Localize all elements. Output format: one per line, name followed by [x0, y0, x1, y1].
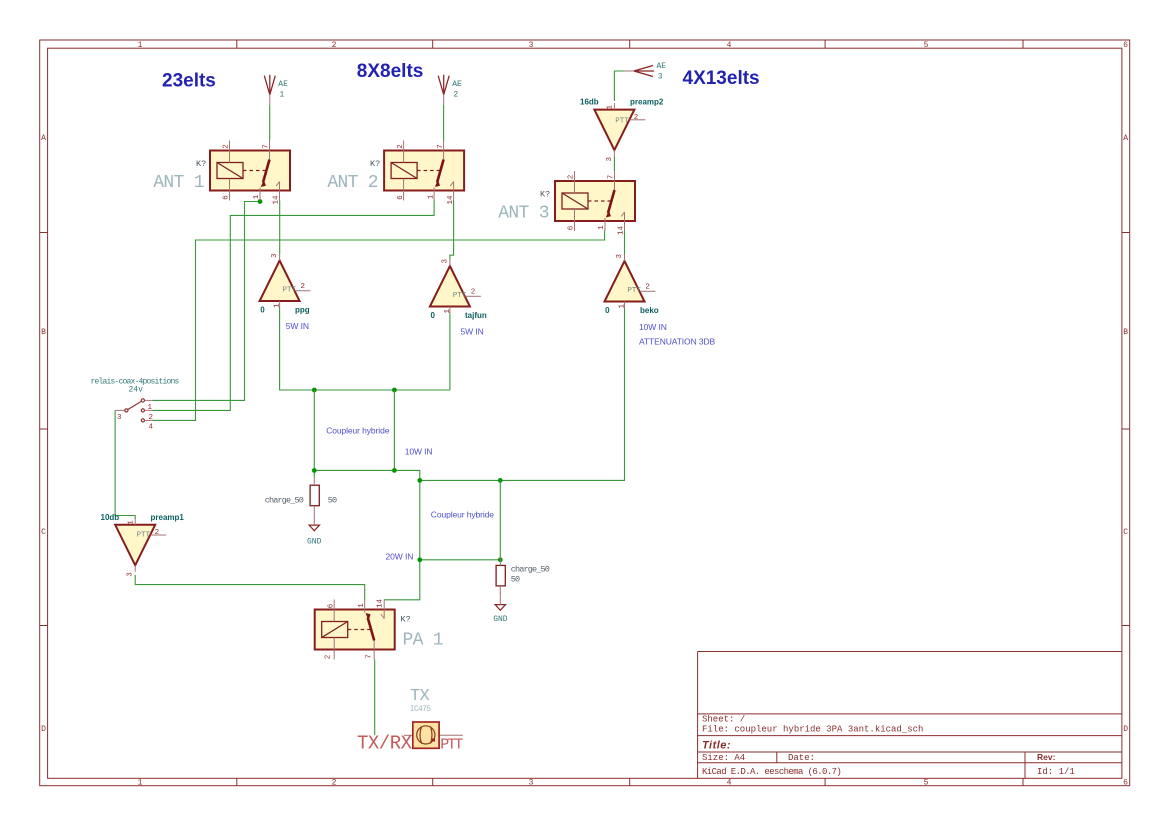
wire beko pin1 down to coupler2: [420, 306, 625, 480]
wire ANT2 pin14 to tajfun pin3: [450, 201, 454, 261]
wire preamp2 pin3 to ANT3 pin7: [613, 157, 615, 171]
svg-text:8X8elts: 8X8elts: [357, 61, 424, 82]
svg-text:GND: GND: [307, 538, 322, 547]
ground GND1: [307, 513, 322, 547]
svg-text:GND: GND: [493, 615, 508, 624]
amplifier ppg PTT: [260, 253, 311, 331]
svg-text:4: 4: [149, 423, 154, 431]
resistor charge_50 R1 50: [265, 477, 337, 513]
svg-text:4X13elts: 4X13elts: [683, 68, 760, 89]
svg-text:7: 7: [608, 175, 616, 180]
svg-text:6: 6: [327, 603, 335, 608]
svg-text:K?: K?: [370, 159, 380, 169]
svg-text:B: B: [41, 328, 46, 337]
component TX/RX PTT lamp U1: [357, 687, 463, 754]
svg-text:1: 1: [427, 194, 435, 199]
svg-text:3: 3: [441, 259, 449, 264]
svg-text:A: A: [41, 134, 46, 143]
svg-text:0: 0: [260, 305, 265, 314]
svg-text:Coupleur hybride: Coupleur hybride: [431, 510, 495, 520]
node junction coupler2 bottom left: [417, 557, 422, 562]
svg-text:File: coupleur hybride 3PA 3an: File: coupleur hybride 3PA 3ant.kicad_sc…: [702, 724, 923, 734]
svg-text:5W IN: 5W IN: [461, 326, 484, 336]
svg-text:3: 3: [271, 253, 279, 258]
svg-text:2: 2: [324, 655, 332, 660]
svg-text:14: 14: [273, 195, 281, 205]
svg-text:7: 7: [437, 144, 445, 149]
svg-text:3: 3: [658, 73, 663, 82]
svg-text:1: 1: [280, 91, 285, 100]
node junction coupler1 bottom right: [392, 468, 397, 473]
svg-text:2: 2: [332, 779, 337, 788]
antenna AE3: [624, 62, 666, 82]
svg-text:Id: 1/1: Id: 1/1: [1037, 767, 1075, 777]
svg-text:1: 1: [127, 520, 135, 525]
node junction coupler2 bottom right: [498, 557, 503, 562]
wire ANT2 pin1 to switch contact2: [152, 201, 434, 411]
svg-text:1: 1: [274, 303, 282, 308]
svg-text:PTT: PTT: [283, 286, 297, 294]
svg-text:ANT 1: ANT 1: [153, 173, 204, 193]
node junction ANT1 pin1: [258, 199, 263, 204]
svg-text:1: 1: [253, 194, 261, 199]
svg-text:preamp1: preamp1: [151, 513, 185, 522]
svg-text:C: C: [1123, 528, 1128, 537]
svg-text:5: 5: [924, 41, 929, 50]
svg-text:24v: 24v: [129, 385, 144, 394]
node junction coupler1 top right: [392, 388, 397, 393]
svg-text:B: B: [1123, 328, 1128, 337]
wire ANT1 pin1 to switch contact1: [152, 202, 260, 401]
relay PA1 K?: [315, 598, 443, 659]
antenna AE2: [438, 75, 462, 105]
wire coupler1 left branch down: [313, 390, 315, 478]
svg-text:3: 3: [127, 572, 135, 577]
ground GND2: [493, 592, 508, 624]
wire ppg pin1 down to coupler1: [280, 307, 450, 390]
svg-text:6: 6: [1123, 41, 1128, 50]
svg-text:AE: AE: [657, 62, 667, 71]
svg-text:Sheet: /: Sheet: /: [702, 715, 745, 725]
svg-text:23elts: 23elts: [162, 71, 216, 92]
svg-text:3: 3: [529, 41, 534, 50]
svg-text:3: 3: [117, 414, 122, 422]
svg-text:2: 2: [568, 175, 576, 180]
wire AE2 to ANT2 pin7: [443, 105, 445, 141]
wire coupler1 bottom to coupler2: [314, 470, 420, 599]
svg-text:3: 3: [529, 779, 534, 788]
svg-text:1: 1: [598, 225, 606, 230]
svg-text:1: 1: [138, 41, 143, 50]
resistor charge_50 R2 50: [496, 557, 550, 593]
wire AE3 to preamp2 pin1: [614, 71, 628, 101]
svg-text:2: 2: [223, 144, 231, 149]
svg-text:charge_50: charge_50: [511, 564, 550, 574]
svg-text:2: 2: [149, 414, 154, 422]
svg-text:K?: K?: [401, 615, 411, 625]
relay ANT1 K?: [153, 141, 290, 205]
wire preamp1 pin3 to PA1 pin1: [135, 575, 365, 600]
svg-text:4: 4: [727, 41, 732, 50]
relay ANT2 K?: [327, 141, 464, 205]
node junction coupler2 top right: [498, 478, 503, 483]
svg-text:Date:: Date:: [788, 753, 815, 763]
svg-text:PTT: PTT: [440, 736, 463, 753]
svg-text:50: 50: [511, 574, 520, 584]
amplifier beko PTT: [605, 254, 716, 347]
wire coupler2 bottom bar: [420, 559, 501, 561]
svg-text:Size: A4: Size: A4: [702, 753, 745, 763]
svg-text:TX: TX: [410, 687, 430, 706]
svg-text:K?: K?: [196, 159, 206, 169]
svg-text:preamp2: preamp2: [630, 98, 664, 107]
svg-text:0: 0: [605, 306, 610, 315]
svg-text:10W IN: 10W IN: [639, 322, 667, 332]
antenna AE1: [264, 75, 288, 105]
svg-text:D: D: [1123, 725, 1128, 734]
svg-text:5W IN: 5W IN: [286, 321, 309, 331]
amplifier tajfun PTT: [430, 259, 487, 337]
svg-text:6: 6: [397, 195, 405, 200]
switch relais-coax-4positions SW1: [91, 377, 180, 431]
wire ANT3 pin14 to beko pin3: [624, 231, 626, 255]
svg-text:Title:: Title:: [702, 739, 731, 751]
svg-text:3: 3: [616, 254, 624, 259]
svg-text:ATTENUATION 3DB: ATTENUATION 3DB: [639, 337, 716, 347]
svg-text:3: 3: [606, 157, 614, 162]
svg-text:6: 6: [568, 225, 576, 230]
svg-text:2: 2: [155, 529, 160, 537]
node junction coupler1 bottom left: [312, 468, 317, 473]
wire ANT3 pin1 to switch contact4: [152, 231, 604, 421]
svg-text:14: 14: [447, 195, 455, 205]
svg-text:1: 1: [444, 309, 452, 314]
svg-text:ppg: ppg: [295, 305, 310, 314]
svg-text:IC475: IC475: [410, 705, 431, 714]
svg-text:2: 2: [453, 91, 458, 100]
wire tajfun pin1 down to coupler1: [449, 312, 451, 391]
svg-text:1: 1: [607, 105, 615, 110]
svg-text:PTT: PTT: [627, 287, 641, 295]
wire switch common to preamp1 pin1: [115, 410, 135, 519]
wire ANT1 pin14 to ppg pin3: [279, 201, 281, 255]
svg-text:6: 6: [1123, 779, 1128, 788]
svg-text:PTT: PTT: [137, 532, 151, 540]
svg-text:20W IN: 20W IN: [386, 552, 414, 562]
svg-text:14: 14: [618, 225, 626, 235]
svg-text:5: 5: [924, 779, 929, 788]
svg-text:10db: 10db: [101, 513, 120, 522]
svg-text:2: 2: [471, 288, 476, 296]
svg-text:tajfun: tajfun: [465, 311, 487, 320]
svg-text:Rev:: Rev:: [1037, 752, 1056, 762]
svg-text:1: 1: [358, 603, 366, 608]
svg-text:7: 7: [263, 144, 271, 149]
svg-text:1: 1: [618, 304, 626, 309]
svg-text:10W IN: 10W IN: [405, 446, 433, 456]
svg-text:AE: AE: [452, 80, 462, 89]
node junction coupler1 top left: [312, 388, 317, 393]
svg-text:ANT 3: ANT 3: [498, 204, 549, 224]
svg-text:1: 1: [148, 404, 153, 412]
svg-text:2: 2: [332, 41, 337, 50]
svg-text:D: D: [41, 725, 46, 734]
svg-text:2: 2: [634, 114, 639, 122]
svg-text:PTT: PTT: [615, 118, 629, 126]
svg-text:7: 7: [365, 654, 373, 659]
wire coupler1 right branch down: [393, 390, 395, 470]
svg-text:2: 2: [397, 144, 405, 149]
svg-text:beko: beko: [640, 306, 659, 315]
svg-text:2: 2: [645, 283, 650, 291]
node junction coupler2 top left: [417, 478, 422, 483]
svg-text:50: 50: [328, 495, 337, 505]
amplifier preamp2 PTT 16db: [580, 98, 664, 162]
svg-text:16db: 16db: [580, 98, 599, 107]
svg-text:ANT 2: ANT 2: [327, 173, 378, 193]
wire AE1 to ANT1 pin7: [269, 105, 271, 141]
svg-text:4: 4: [727, 779, 732, 788]
svg-text:0: 0: [431, 311, 436, 320]
svg-text:KiCad E.D.A. eeschema (6.0.7): KiCad E.D.A. eeschema (6.0.7): [702, 767, 841, 777]
svg-text:K?: K?: [540, 190, 550, 200]
relay ANT3 K?: [498, 171, 635, 235]
wire PA1 pin7 to TXRX: [374, 660, 376, 736]
svg-text:PTT: PTT: [453, 292, 467, 300]
svg-text:AE: AE: [278, 80, 288, 89]
wire coupler2 right branch down to charge_50 R2: [499, 480, 501, 561]
svg-text:2: 2: [301, 283, 306, 291]
svg-text:C: C: [41, 528, 46, 537]
svg-text:A: A: [1123, 134, 1128, 143]
svg-text:14: 14: [376, 598, 384, 608]
svg-text:charge_50: charge_50: [265, 495, 304, 505]
svg-text:PA 1: PA 1: [403, 631, 443, 651]
amplifier preamp1 PTT 10db: [101, 513, 185, 577]
svg-text:6: 6: [223, 195, 231, 200]
svg-text:Coupleur hybride: Coupleur hybride: [326, 426, 390, 436]
svg-text:TX/RX: TX/RX: [357, 732, 413, 754]
svg-text:1: 1: [138, 779, 143, 788]
